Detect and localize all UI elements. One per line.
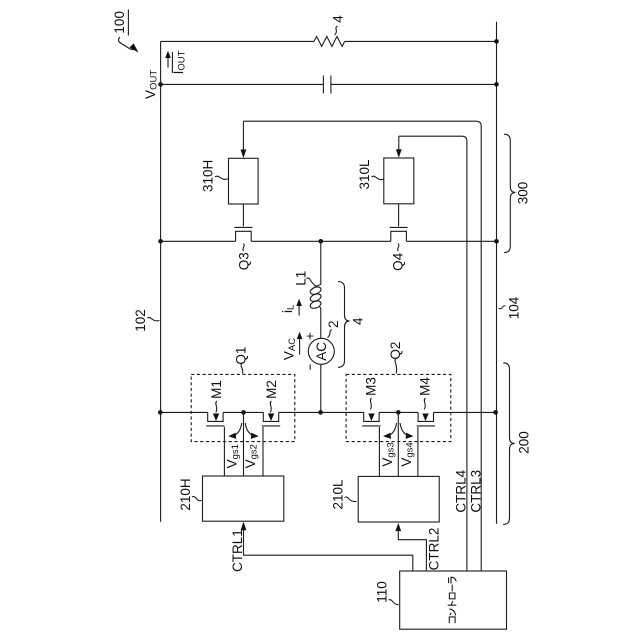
arrow iL <box>296 299 302 316</box>
svg-text:300: 300 <box>516 182 531 205</box>
wire mid rail segment B <box>251 240 391 242</box>
node mid rail center <box>319 239 324 244</box>
wire mid rail segment C <box>406 240 496 242</box>
brace 4 <box>338 282 350 368</box>
svg-text:210H: 210H <box>178 478 193 510</box>
inductor L1 <box>309 285 322 310</box>
wire main rail segment 1 <box>160 411 207 413</box>
wire mid rail segment A <box>161 240 236 242</box>
wire second rail right <box>331 83 497 85</box>
box controller 110 <box>400 571 507 629</box>
svg-text:M4: M4 <box>417 377 432 396</box>
svg-text:110: 110 <box>375 581 390 603</box>
arrow vgs2 <box>245 423 259 439</box>
arrow IOUT <box>165 51 171 68</box>
dashed box Q2 <box>346 374 451 441</box>
svg-text:AC: AC <box>314 342 329 361</box>
AC source circle <box>308 338 334 364</box>
svg-text:4: 4 <box>351 317 366 325</box>
wire center branch upper <box>320 241 322 284</box>
wire main rail segment 5 <box>434 411 496 413</box>
svg-text:M3: M3 <box>364 377 379 396</box>
svg-text:2: 2 <box>326 321 341 329</box>
label Q3 <box>236 244 251 271</box>
node Q1 center <box>241 410 246 415</box>
svg-text:CTRL4: CTRL4 <box>454 469 469 512</box>
svg-text:102: 102 <box>133 309 148 332</box>
box 210H <box>203 476 284 521</box>
wire center branch middle <box>320 310 322 339</box>
node mid rail right <box>494 239 499 244</box>
transistor M2 <box>262 412 280 476</box>
node main rail left <box>158 410 163 415</box>
label IOUT <box>171 50 187 74</box>
svg-text:Q1: Q1 <box>234 347 249 365</box>
label M4 <box>417 377 432 421</box>
label controller katakana <box>448 577 456 623</box>
node top rail right <box>494 39 499 44</box>
wire top rail left <box>161 40 314 42</box>
arrow vgs3 <box>383 423 397 439</box>
svg-text:M1: M1 <box>209 380 224 399</box>
svg-text:100: 100 <box>112 11 127 34</box>
wire main rail segment 3 <box>279 411 364 413</box>
label Q2 <box>388 342 403 374</box>
wire main rail segment 2 <box>223 411 263 413</box>
node Q2 center <box>396 410 401 415</box>
wire second rail left <box>161 83 324 85</box>
svg-text:104: 104 <box>506 296 521 319</box>
label 104 <box>499 296 522 319</box>
svg-text:+: + <box>302 332 317 340</box>
svg-text:CTRL2: CTRL2 <box>426 528 441 571</box>
label 210L <box>331 479 357 510</box>
svg-text:M2: M2 <box>264 380 279 399</box>
wire main rail segment 4 <box>379 411 418 413</box>
svg-text:CTRL3: CTRL3 <box>469 470 484 513</box>
box 310L <box>384 158 414 204</box>
transistor M1 <box>206 412 224 476</box>
wire right line 104 <box>496 22 498 524</box>
label M3 <box>364 377 379 421</box>
transistor Q4 <box>390 204 408 242</box>
svg-text:Q3: Q3 <box>236 252 251 270</box>
label L1 <box>293 271 316 287</box>
svg-text:310H: 310H <box>200 160 215 192</box>
node main rail right <box>493 410 498 415</box>
svg-text:Q4: Q4 <box>391 252 406 271</box>
svg-text:4: 4 <box>330 15 345 23</box>
label M2 <box>264 380 279 421</box>
svg-text:CTRL1: CTRL1 <box>230 529 245 572</box>
label 4 resistor <box>330 15 345 35</box>
wire CTRL1 <box>241 522 413 571</box>
transistor M3 <box>362 412 380 476</box>
label 110 <box>375 581 399 604</box>
box 210L <box>358 476 439 522</box>
wire Q2 center sense line <box>397 412 399 476</box>
label 310L <box>357 159 384 190</box>
wire CTRL3 feed to 310H <box>243 121 481 570</box>
box 310H <box>229 158 259 204</box>
node main rail center <box>318 410 323 415</box>
label 210H <box>178 478 202 510</box>
brace 300 <box>504 134 516 252</box>
node second rail right <box>494 82 499 87</box>
node mid rail left <box>158 239 163 244</box>
dashed box Q1 <box>191 374 295 441</box>
wire center branch lower <box>320 364 322 412</box>
label M1 <box>209 380 224 421</box>
label 100 <box>112 10 138 53</box>
label Q1 <box>234 347 249 374</box>
wire left line 102 <box>160 41 162 521</box>
arrow vgs1 <box>228 423 242 439</box>
wire CTRL4 feed to 310L <box>399 136 467 570</box>
arrow VAC <box>297 332 303 355</box>
brace 200 <box>503 363 515 525</box>
svg-text:200: 200 <box>516 431 531 454</box>
minus sign <box>309 364 311 369</box>
wire CTRL2 <box>395 523 426 571</box>
wire top rail right <box>345 40 497 42</box>
svg-text:310L: 310L <box>357 159 372 190</box>
arrow vgs4 <box>400 423 414 439</box>
transistor M4 <box>417 412 435 476</box>
label 310H <box>200 160 228 192</box>
transistor Q3 <box>234 204 252 241</box>
svg-text:L1: L1 <box>293 271 308 286</box>
resistor 4 <box>314 36 345 46</box>
label 102 <box>133 309 160 332</box>
capacitor <box>322 76 324 94</box>
label 2 <box>326 321 341 338</box>
svg-text:Q2: Q2 <box>388 342 403 360</box>
node VOUT corner <box>158 82 163 87</box>
label Q4 <box>391 244 406 271</box>
svg-text:210L: 210L <box>331 479 346 510</box>
wire Q1 center sense line <box>243 412 245 476</box>
